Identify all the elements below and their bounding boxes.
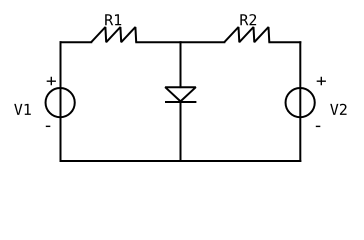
wire left rail (through V1) [60,42,62,161]
wire top-middle segment (R1 right lead to R2 left lead through middle node) [136,41,224,43]
V2 minus sign [316,125,321,127]
diode D1 triangle (anode, pointing down) [165,87,196,101]
voltage source V2 circle [286,88,315,117]
diode D1 cathode bar [165,101,196,103]
resistor R1 [91,27,136,42]
V1 minus sign [46,125,51,127]
label R1 [105,14,121,25]
label V1 [14,104,31,115]
wire bottom segment [61,160,301,162]
wire top-right segment (R2 right lead to top-right corner) [269,41,300,43]
label R2 [240,14,256,25]
wire middle rail bottom (diode cathode to bottom wire) [180,102,182,161]
voltage source V1 circle [46,88,75,117]
wire right rail (through V2) [299,42,301,161]
label V2 [330,104,346,115]
wire top-left segment (top-left corner to R1 left lead) [61,41,92,43]
wire middle rail top (top node to diode anode) [180,42,182,87]
V2 plus sign [317,77,326,86]
resistor R2 [224,27,269,42]
V1 plus sign [47,77,56,86]
